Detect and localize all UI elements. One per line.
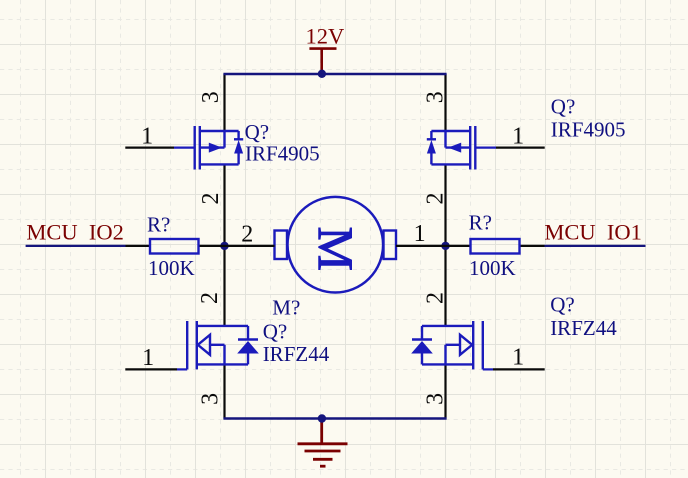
resistor left pin	[446, 245, 471, 247]
svg-text:IRFZ44: IRFZ44	[263, 342, 330, 366]
power port 12V	[309, 49, 336, 74]
motor terminal right	[384, 231, 397, 260]
pin 1 gate lead	[125, 147, 174, 149]
svg-text:100K: 100K	[469, 256, 516, 280]
resistor right pin	[520, 245, 545, 247]
resistor right pin	[199, 245, 225, 247]
svg-text:2: 2	[197, 292, 223, 304]
svg-text:2: 2	[241, 221, 253, 247]
pin 1 gate lead	[496, 147, 545, 149]
resistor body	[150, 239, 199, 254]
transistor Q2 top-right IRF4905 (mirrored)	[427, 126, 545, 170]
svg-text:M: M	[308, 226, 364, 270]
resistor R? right 100K	[446, 239, 646, 254]
svg-text:Q?: Q?	[263, 320, 288, 344]
svg-text:100K: 100K	[148, 256, 195, 280]
svg-text:3: 3	[423, 91, 449, 103]
junction dot node 2 left	[220, 242, 228, 250]
pin 1 gate lead	[493, 368, 545, 370]
motor terminal left	[275, 231, 288, 260]
svg-text:MCU IO2: MCU IO2	[26, 220, 124, 245]
svg-text:1: 1	[512, 345, 524, 371]
svg-text:3: 3	[198, 91, 224, 103]
svg-text:IRFZ44: IRFZ44	[550, 316, 617, 340]
svg-text:Q?: Q?	[245, 120, 270, 144]
motor circle	[288, 197, 384, 293]
pin 1 gate lead	[125, 368, 177, 370]
wire MCU IO2	[26, 245, 126, 247]
svg-text:1: 1	[414, 221, 426, 247]
resistor body	[471, 239, 520, 254]
transistor Q4 bottom-right IRFZ44 (mirrored)	[411, 321, 545, 369]
svg-text:1: 1	[512, 123, 524, 149]
wire left mid vertical	[223, 164, 225, 326]
resistor R? left 100K	[26, 239, 225, 254]
transistor Q3 bottom-left IRFZ44	[125, 321, 258, 369]
ground symbol	[298, 419, 348, 467]
wire right mid vertical	[444, 164, 446, 326]
svg-text:R?: R?	[469, 211, 492, 235]
svg-text:MCU IO1: MCU IO1	[544, 219, 642, 244]
wire MCU IO1	[545, 245, 646, 247]
svg-text:Q?: Q?	[551, 95, 576, 119]
svg-text:IRF4905: IRF4905	[551, 118, 626, 142]
svg-text:1: 1	[141, 123, 153, 149]
wire bottom rail GND	[223, 364, 225, 418]
svg-text:3: 3	[423, 393, 449, 405]
svg-text:2: 2	[423, 193, 449, 205]
resistor left pin	[126, 245, 151, 247]
transistor Q1 top-left IRF4905	[125, 126, 243, 170]
svg-text:2: 2	[198, 193, 224, 205]
motor pin 1 lead	[396, 245, 446, 247]
junction dot bottom (GND)	[318, 414, 326, 422]
svg-text:Q?: Q?	[550, 292, 575, 316]
junction dot top (12V)	[318, 70, 326, 78]
svg-text:2: 2	[423, 292, 449, 304]
motor M?	[225, 197, 446, 293]
wire top rail 12V	[223, 74, 225, 131]
svg-text:M?: M?	[272, 296, 300, 320]
svg-text:12V: 12V	[306, 23, 345, 48]
svg-text:1: 1	[142, 345, 154, 371]
motor pin 2 lead	[225, 245, 275, 247]
svg-text:IRF4905: IRF4905	[245, 142, 320, 166]
svg-text:R?: R?	[147, 213, 170, 237]
svg-text:3: 3	[197, 393, 223, 405]
junction dot node 1 right	[441, 242, 449, 250]
